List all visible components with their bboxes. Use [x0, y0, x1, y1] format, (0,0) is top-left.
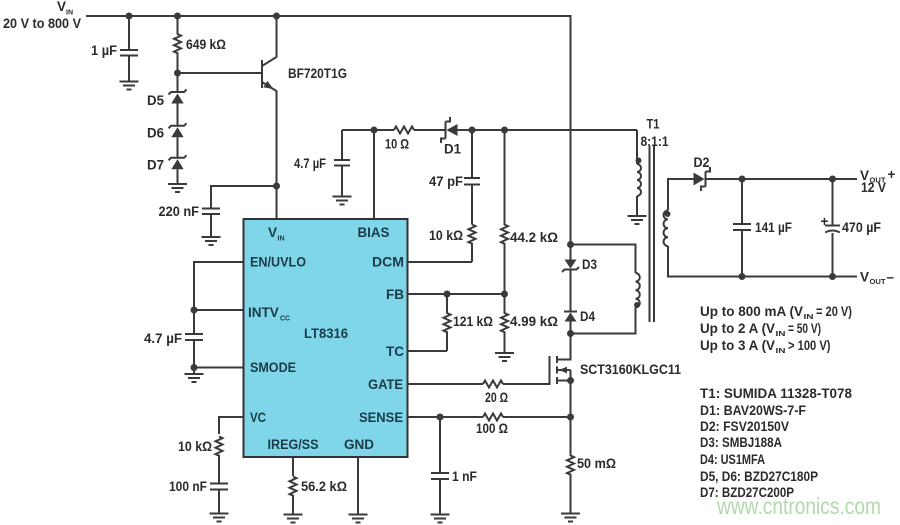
node VOUT+ label [860, 167, 896, 195]
capacitor 4.7uF BIAS [294, 130, 350, 197]
junction top rail collector [273, 13, 280, 20]
svg-text:50 mΩ: 50 mΩ [577, 456, 616, 471]
svg-text:141 µF: 141 µF [755, 220, 792, 235]
zener D7 [147, 137, 187, 184]
wire D1 to bias winding [458, 129, 638, 131]
diode D2 FSV20150V [694, 155, 711, 191]
wire 10R to D1 [414, 129, 446, 131]
wire GND pin [357, 457, 359, 515]
svg-text:SENSE: SENSE [359, 410, 403, 425]
junction 141uF top [739, 176, 746, 183]
svg-text:EN/UVLO: EN/UVLO [250, 255, 306, 270]
svg-text:T1: T1 [647, 117, 660, 132]
ground 100nF [210, 514, 229, 522]
svg-text:VC: VC [250, 410, 266, 425]
svg-text:V: V [57, 0, 66, 14]
svg-text:12 V: 12 V [861, 180, 886, 195]
node VOUT- label [860, 270, 895, 287]
svg-text:IN: IN [776, 331, 786, 338]
wire VC pin [219, 417, 244, 434]
junction base node [174, 70, 181, 77]
wire 20R to gate [503, 383, 550, 385]
resistor 10k DCM [429, 225, 476, 263]
junction FB 121k [444, 291, 451, 298]
svg-text:4.99 kΩ: 4.99 kΩ [510, 314, 558, 329]
wire output top rail [706, 178, 858, 180]
junction 470uF top [829, 176, 836, 183]
wire GATE pin [408, 383, 484, 385]
svg-text:D5, D6: BZD27C180P: D5, D6: BZD27C180P [700, 469, 818, 484]
ground 1nF [431, 515, 450, 523]
node bias phase dot [636, 158, 642, 164]
svg-text:IREG/SS: IREG/SS [268, 437, 319, 452]
pin VIN label [268, 225, 285, 243]
resistor 121k [444, 294, 494, 351]
wire EN/UVLO [194, 262, 244, 310]
node secondary phase dot [665, 211, 671, 217]
wire FB pin [408, 293, 505, 295]
resistor 56.2k [290, 477, 348, 515]
svg-text:GND: GND [344, 437, 374, 452]
svg-text:220 nF: 220 nF [159, 204, 200, 219]
svg-text:100 nF: 100 nF [169, 479, 207, 494]
svg-text:10 Ω: 10 Ω [385, 137, 409, 152]
junction BIAS [371, 127, 378, 134]
svg-text:INTV: INTV [248, 305, 279, 320]
svg-text:D6: D6 [147, 126, 164, 141]
wire primary top [571, 245, 636, 274]
diode D1 BAV20WS [441, 117, 461, 157]
wire 100R to source [503, 416, 571, 418]
svg-text:GATE: GATE [368, 377, 403, 392]
wire SMODE pin [194, 368, 244, 375]
ground 50m [561, 514, 580, 522]
junction clamp top [567, 241, 574, 248]
wire bias rail left [342, 129, 394, 131]
svg-text:SCT3160KLGC11: SCT3160KLGC11 [580, 362, 681, 377]
wire secondary bottom [668, 246, 857, 276]
svg-text:D1: BAV20WS-7-F: D1: BAV20WS-7-F [700, 403, 806, 418]
resistor 10k VC [178, 437, 223, 484]
svg-text:44.2 kΩ: 44.2 kΩ [510, 230, 558, 245]
svg-text:–: – [887, 270, 895, 285]
svg-text:100 Ω: 100 Ω [476, 421, 508, 436]
inductor T1 primary winding [636, 273, 640, 307]
inductor T1 secondary winding [664, 211, 668, 247]
transistor M1 SCT3160KLGC11 [550, 334, 682, 418]
ground D7 [168, 184, 187, 192]
svg-text:D3: SMBJ188A: D3: SMBJ188A [700, 435, 782, 450]
svg-text:T1: SUMIDA 11328-T078: T1: SUMIDA 11328-T078 [700, 386, 852, 401]
svg-text:LT8316: LT8316 [304, 326, 348, 341]
transformer T1 core [650, 146, 655, 322]
label output current line1 [700, 304, 852, 321]
svg-text:Up to 800 mA (V: Up to 800 mA (V [700, 304, 803, 319]
junction SMODE [191, 364, 198, 371]
svg-text:TC: TC [386, 344, 404, 359]
svg-text:CC: CC [280, 316, 290, 323]
svg-text:www.cntronics.com: www.cntronics.com [716, 493, 881, 519]
label output current line2 [700, 321, 821, 338]
wire base [178, 72, 263, 74]
svg-text:Up to 3 A (V: Up to 3 A (V [700, 338, 775, 353]
node primary phase dot [634, 302, 640, 308]
label output current line3 [700, 338, 831, 355]
wire TC pin [408, 350, 448, 352]
svg-text:4.7 µF: 4.7 µF [294, 156, 326, 171]
svg-text:D4: US1MFA: D4: US1MFA [700, 452, 765, 467]
resistor 20R [483, 381, 508, 406]
ground 220nF [202, 237, 221, 245]
capacitor 220nF [159, 186, 277, 237]
ground 4.7uF BIAS [333, 197, 352, 205]
svg-text:47 pF: 47 pF [429, 174, 463, 189]
junction 141uF bottom [739, 273, 746, 280]
ground 56.2k [284, 515, 303, 523]
svg-text:V: V [268, 225, 277, 240]
junction 44.2k top [501, 127, 508, 134]
svg-text:1 µF: 1 µF [91, 43, 117, 58]
resistor 44.2k [501, 130, 558, 294]
junction source sense [567, 414, 574, 421]
wire top VIN rail [86, 16, 571, 245]
wire BIAS pin [373, 130, 375, 219]
capacitor 141uF [733, 179, 792, 277]
svg-text:SMODE: SMODE [250, 360, 296, 375]
svg-text:+: + [888, 167, 896, 182]
svg-text:DCM: DCM [372, 255, 404, 270]
resistor 50m [567, 417, 616, 514]
ground SMODE [185, 374, 204, 382]
wire SENSE pin [408, 416, 484, 418]
svg-text:BF720T1G: BF720T1G [288, 66, 347, 81]
transistor Q1 BF720T1G [262, 16, 347, 219]
wire primary bottom [571, 307, 636, 333]
svg-text:IN: IN [278, 236, 285, 243]
capacitor 470uF polarized [821, 179, 882, 277]
capacitor 100nF VC [169, 479, 228, 513]
capacitor 1nF [431, 417, 477, 515]
wire DCM pin [408, 261, 473, 263]
svg-text:20 Ω: 20 Ω [485, 390, 508, 405]
ground 1uF [120, 82, 139, 90]
resistor 10R [385, 127, 414, 152]
svg-text:D5: D5 [147, 93, 164, 108]
capacitor 4.7uF INTVCC [144, 310, 203, 368]
svg-text:649 kΩ: 649 kΩ [186, 37, 226, 52]
resistor 649k [174, 16, 226, 73]
svg-text:Up to 2 A (V: Up to 2 A (V [700, 321, 775, 336]
junction top rail 1uF [126, 13, 133, 20]
wire INTVCC pin [194, 309, 244, 311]
svg-text:= 50 V): = 50 V) [788, 321, 821, 336]
resistor 4.99k [501, 294, 558, 353]
svg-text:121 kΩ: 121 kΩ [453, 314, 493, 329]
node VIN input label [3, 0, 81, 31]
resistor 100R [476, 414, 508, 437]
wire bias winding top [636, 130, 638, 164]
svg-text:8:1:1: 8:1:1 [641, 134, 669, 149]
svg-text:56.2 kΩ: 56.2 kΩ [301, 479, 347, 494]
ground GND pin [349, 515, 368, 523]
op-amp U1 LT8316 body [244, 219, 408, 457]
svg-text:D4: D4 [580, 309, 595, 324]
svg-text:10 kΩ: 10 kΩ [178, 439, 212, 454]
ground bias winding [628, 216, 647, 224]
wire IREG/SS pin [292, 457, 294, 476]
zener D6 [147, 104, 187, 141]
junction INTVCC [191, 307, 198, 314]
zener D5 [147, 73, 187, 108]
junction 220nF emitter [273, 183, 280, 190]
wire bias winding bottom [636, 196, 638, 216]
svg-text:FB: FB [386, 287, 404, 302]
svg-text:D1: D1 [444, 142, 461, 157]
svg-text:4.7 µF: 4.7 µF [144, 331, 182, 346]
svg-text:+: + [821, 214, 829, 229]
junction FB 44.2k [501, 291, 508, 298]
pin INTVCC label [248, 305, 290, 323]
svg-text:BIAS: BIAS [358, 225, 390, 240]
capacitor 47pF [429, 130, 480, 225]
junction drain node [567, 330, 574, 337]
svg-text:OUT: OUT [870, 279, 887, 286]
svg-text:V: V [860, 270, 869, 285]
zener D3 SMBJ188A [562, 245, 597, 273]
ground 4.99k [495, 353, 514, 361]
svg-text:10 kΩ: 10 kΩ [429, 228, 463, 243]
svg-text:D3: D3 [582, 257, 597, 272]
svg-text:20 V to 800 V: 20 V to 800 V [3, 16, 81, 31]
svg-text:> 100 V): > 100 V) [788, 338, 831, 353]
junction top rail 649k [174, 13, 181, 20]
diode D4 US1MFA [564, 270, 595, 334]
junction SENSE 1nF [437, 414, 444, 421]
svg-text:1 nF: 1 nF [452, 469, 477, 484]
svg-text:IN: IN [776, 348, 786, 355]
junction 470uF bottom [829, 273, 836, 280]
svg-text:470 µF: 470 µF [842, 220, 881, 235]
junction 47pF [469, 127, 476, 134]
svg-text:D2: FSV20150V: D2: FSV20150V [700, 419, 789, 434]
svg-text:D2: D2 [694, 155, 710, 170]
capacitor 1uF [91, 16, 138, 82]
svg-text:D7: D7 [147, 158, 164, 173]
wire secondary top [668, 179, 695, 211]
svg-text:= 20 V): = 20 V) [816, 304, 852, 319]
svg-text:IN: IN [804, 314, 814, 321]
inductor T1 bias winding [637, 164, 641, 196]
